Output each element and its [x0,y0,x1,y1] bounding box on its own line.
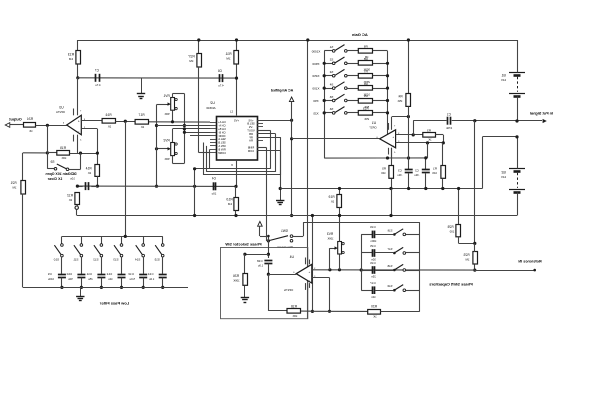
svg-text:C9: C9 [48,272,52,276]
wire U2 pin5 [190,135,210,137]
svg-text:COM: COM [247,149,254,153]
wire bank bus [419,222,421,311]
svg-text:C12: C12 [106,272,112,276]
potentiometer RV3 [327,232,345,270]
capacitor C6 [218,69,224,88]
svg-text:In Put Signal: In Put Signal [530,111,553,115]
capacitor C2 [414,156,430,190]
wire bias rail y78 [78,77,237,79]
node R15 right [96,152,99,155]
svg-text:B1: B1 [501,73,505,77]
svg-text:50K: 50K [164,112,169,116]
node R15 left [46,151,49,154]
terminal input signal [517,119,547,123]
resistor R24 [24,117,36,133]
resistor R23 gain row with switch S6 [313,107,389,122]
svg-text:25K: 25K [364,117,369,121]
node C4 left [193,185,196,188]
capacitor C18 [257,259,273,274]
wire LPF top bus [62,235,163,238]
svg-text:Output: Output [9,117,22,121]
svg-text:SW1: SW1 [281,229,288,233]
battery B2 [501,137,525,216]
svg-text:R27: R27 [188,55,194,59]
ground G1 [137,78,145,99]
svg-text:R23: R23 [463,253,469,257]
capacitor C9 with switch S10 [47,236,65,289]
capacitor C16 with switch S18 [361,261,420,279]
capacitor C14 with switch S15 [148,236,167,289]
svg-text:C11: C11 [86,272,92,276]
svg-text:U4: U4 [290,255,294,259]
svg-text:OP27: OP27 [369,126,377,130]
wire SW1 to bank top [293,222,420,236]
resistor R6 gain row with switch S4 [312,82,389,97]
svg-text:S15: S15 [154,258,160,262]
wire feedback y186 [77,185,236,187]
svg-text:COMP: COMP [218,151,226,155]
svg-text:10u: 10u [108,277,113,281]
svg-text:S9: S9 [50,160,54,164]
wire long rail y215 [77,215,517,217]
label Phase Shift Capacitors [428,281,472,286]
capacitor C1 [445,113,517,130]
capacitor C11 with switch S12 [86,236,105,289]
svg-text:AD630: AD630 [206,106,216,110]
svg-text:C10: C10 [66,272,72,276]
wire U3 -in down [81,129,97,165]
potentiometer RV2 [163,139,177,162]
op-amp U4 OP27 [284,255,312,292]
arrow phase input [258,221,268,236]
capacitor C12 with switch S13 [106,236,125,289]
wire top to SW1 [306,38,309,318]
resistor R19 [328,187,341,217]
svg-text:1M: 1M [12,186,17,190]
svg-text:C2: C2 [415,169,419,173]
svg-text:R5: R5 [382,167,386,171]
resistor R14 [85,165,99,188]
svg-text:R13: R13 [68,53,74,57]
svg-text:S5: S5 [329,95,333,99]
wire U3 +in to R16 [81,120,102,122]
wire bank left spine [361,234,363,290]
U2 pin stubs and pin names [210,118,263,155]
svg-text:100: 100 [449,229,454,233]
U4 pin numbers [292,268,315,278]
battery B1 [501,40,525,121]
wire -in riser [312,278,331,313]
resistor R5 gain row with switch S5 [313,94,389,109]
svg-text:C15: C15 [370,244,376,248]
connector J1 [75,206,78,216]
wire U4 +in [312,268,475,271]
svg-text:10n: 10n [371,295,376,299]
wire R24 to U3 [36,125,67,127]
label Phase Selector SW [225,242,261,247]
svg-text:RA: RA [249,139,253,143]
svg-text:X1000: X1000 [311,49,320,53]
op-amp U2 AD630 body [206,101,257,160]
svg-text:Low Pass Filter: Low Pass Filter [99,300,129,305]
wire rail to R18 [311,214,314,313]
svg-text:+: + [308,270,310,274]
svg-text:X100: X100 [312,87,319,91]
RV2 wiper loop [155,105,210,188]
svg-text:R19: R19 [328,195,334,199]
wire U2 SELB to SW1 [257,147,267,241]
svg-text:+VS: +VS [234,119,239,123]
svg-text:R26: R26 [233,274,239,278]
svg-text:1M: 1M [226,57,231,61]
capacitor C17 with switch S19 [361,281,420,299]
svg-text:CH B+: CH B+ [218,127,226,131]
svg-text:R25: R25 [447,225,453,229]
node R10 top [234,185,237,188]
node U3 output [46,124,49,127]
svg-text:10u: 10u [70,177,75,181]
svg-text:1K: 1K [108,125,112,129]
wire U2 to AC-amplified node [257,119,293,122]
svg-text:.33u: .33u [414,173,420,177]
svg-text:-VS: -VS [249,125,254,129]
svg-text:SEL A: SEL A [218,137,226,141]
wire R17 to U2 pin1 [148,121,210,123]
RV2 wiring box [173,127,211,163]
svg-text:R5: R5 [363,94,367,98]
resistor R13 [68,51,81,65]
ground G4 [241,286,249,303]
svg-text:R6: R6 [363,82,367,86]
svg-text:50u: 50u [68,277,73,281]
resistor R20 [368,305,420,319]
wire R21 to LPF rail [22,194,24,288]
svg-text:R17: R17 [138,113,144,117]
svg-text:AC Amplified: AC Amplified [271,89,293,93]
svg-text:1X Close: 1X Close [48,177,63,181]
capacitor C7 [95,69,101,88]
svg-text:1K: 1K [373,314,377,318]
svg-text:R15: R15 [60,146,66,150]
wire U4 out to C18 [268,274,296,276]
wire R5 to rail [389,189,392,218]
svg-text:RV3: RV3 [327,232,333,236]
svg-text:C14: C14 [148,272,154,276]
svg-text:10K: 10K [61,156,66,160]
resistor R17 [135,113,148,129]
resistor R26 [233,274,248,287]
svg-text:RIN B: RIN B [218,147,225,151]
wire R26 branch [243,253,268,274]
svg-text:R14: R14 [85,166,91,170]
potentiometer RV1 [163,94,177,116]
svg-text:R21: R21 [10,181,16,185]
svg-text:1M: 1M [465,257,470,261]
capacitor C10 with switch S11 [66,236,85,289]
wire U1 +in [396,134,423,136]
svg-text:SEL B: SEL B [218,141,226,145]
resistor R23b [463,243,477,271]
wire SW1 common down [267,241,270,258]
capacitor C15 with switch S17 [361,244,420,262]
wire feedback y158 [324,156,427,159]
svg-text:11: 11 [230,110,233,114]
svg-text:-: - [393,143,394,147]
wire LPF bottom rail [23,287,188,289]
svg-text:R16: R16 [105,113,111,117]
wire ref riser [474,121,476,244]
wire LPF feed [125,121,127,236]
resistor R4 [397,38,410,158]
svg-text:R3: R3 [427,128,431,132]
svg-text:C13: C13 [128,272,134,276]
wire U2 to ground rail [257,151,281,189]
label AC Gain [351,32,367,37]
svg-text:RINB: RINB [248,146,255,150]
svg-text:S3: S3 [329,70,333,74]
wire C1 branch up [413,121,446,135]
svg-text:R18: R18 [291,305,297,309]
RV1 wiring box [171,94,186,128]
svg-text:S4: S4 [329,82,333,86]
svg-text:Phase Selector SW: Phase Selector SW [225,242,261,247]
node C1 branch [412,133,415,136]
svg-text:VOUT: VOUT [247,129,255,133]
svg-text:1K: 1K [69,198,73,202]
wire AC node to U1 output [290,120,293,217]
svg-text:100u: 100u [47,277,53,281]
svg-text:+: + [392,135,394,139]
svg-text:B2: B2 [501,171,505,175]
resistor R27 [188,40,201,67]
svg-text:S2: S2 [329,58,333,62]
svg-text:1.0u: 1.0u [149,277,155,281]
label Reference IN [518,260,541,264]
resistor R21 [10,181,25,195]
svg-text:U3: U3 [59,105,63,109]
svg-text:OP27A: OP27A [56,110,65,114]
label In Put Signal [530,111,553,115]
svg-text:C4: C4 [212,177,216,181]
RV1 wiper stub [157,104,167,106]
svg-text:C3: C3 [398,169,402,173]
svg-text:1K: 1K [428,138,431,142]
node R27 top [197,38,200,41]
wire analog common rail y188 [280,188,482,190]
svg-text:S12: S12 [93,258,99,262]
ground G3 [76,287,84,300]
svg-text:50K: 50K [164,157,169,161]
svg-text:+VS: +VS [248,118,253,122]
node C6/R11 junction [235,77,238,80]
wire R11 to U2 pin11 [230,64,237,115]
wire U1 output [292,138,380,140]
wire output terminal [10,124,24,126]
svg-text:1.0u: 1.0u [257,264,263,268]
resistor R1 [432,143,446,190]
svg-text:DIOD: DIOD [219,134,226,138]
op-amp U1 OP27 [369,121,396,148]
svg-text:15K: 15K [397,99,402,103]
wire U4 feedback [268,274,287,311]
resistor R10 [226,186,238,217]
svg-text:R1: R1 [433,167,437,171]
box phase selector [221,248,308,319]
svg-text:R24: R24 [27,117,33,121]
resistor R18 [287,305,312,318]
svg-text:RIN A: RIN A [218,144,225,148]
U2 bottom pin 8 [231,160,237,186]
svg-text:S17: S17 [387,247,392,251]
wire R15 left loop [23,152,48,154]
terminal reference in [475,269,536,272]
switch SW1 [266,229,293,249]
svg-text:U2: U2 [210,101,215,105]
svg-text:CH B-: CH B- [218,130,225,134]
capacitor C4 [211,177,216,196]
svg-text:S19: S19 [387,284,392,288]
svg-text:.33u: .33u [397,173,403,177]
resistor R3 [423,128,444,143]
wire wrap3 [204,137,281,175]
svg-text:R23: R23 [363,107,369,111]
svg-text:SEL B: SEL B [247,122,255,126]
U3 pin numbers [62,111,85,142]
svg-text:25u: 25u [88,277,93,281]
U3 power stubs [74,78,78,153]
svg-text:100n: 100n [370,239,376,243]
wire bus V2 to pin10 [199,152,210,154]
svg-text:C19: C19 [370,225,376,229]
resistor R5b [381,148,394,190]
svg-text:1K: 1K [29,129,33,133]
capacitor C3 [397,158,413,190]
node U4 out [267,273,270,276]
svg-text:10K: 10K [432,171,437,175]
svg-text:C16: C16 [370,261,376,265]
svg-text:Reference IN: Reference IN [518,260,541,264]
svg-text:R12: R12 [67,194,73,198]
svg-text:R8: R8 [363,57,367,61]
resistor R9 gain row with switch S1 [311,45,387,60]
svg-text:RV2: RV2 [163,139,169,143]
svg-text:C1: C1 [447,113,451,117]
resistor R7 gain row with switch S3 [312,69,389,84]
wire output to R15 [47,125,49,169]
svg-text:S11: S11 [73,258,78,262]
svg-text:X50: X50 [313,99,319,103]
wire R16-R17 [115,121,135,123]
wire gain left bus [324,51,326,158]
svg-text:C6: C6 [218,69,222,73]
svg-text:1K: 1K [331,199,335,203]
U4 power stubs [306,258,310,290]
svg-text:R11: R11 [225,52,231,56]
resistor R12 [67,193,80,207]
node C5 left [76,185,79,188]
node input/C1 [473,119,476,122]
svg-text:CH A+: CH A+ [218,120,226,124]
wire RV3 top [338,214,341,242]
wire R13 bottom [77,65,79,78]
svg-text:1M: 1M [189,59,194,63]
svg-text:C18: C18 [257,259,263,263]
svg-text:U1: U1 [372,121,376,125]
svg-text:X25: X25 [313,111,319,115]
wire battery midpoint [482,135,518,188]
capacitor C5 [70,172,98,190]
svg-text:S14: S14 [135,258,141,262]
node R13/C7 junction [76,76,79,79]
svg-text:470n: 470n [445,126,452,130]
wire R18 to R20 [312,310,367,312]
svg-text:4.7u: 4.7u [218,83,224,87]
svg-text:RF: RF [249,135,253,139]
U1 pin numbers [376,126,400,155]
svg-text:AC Gain: AC Gain [351,32,367,37]
svg-text:C17: C17 [370,281,376,285]
svg-text:R7: R7 [363,69,367,73]
resistor R16 [102,113,115,129]
wire R21 branch [22,153,24,180]
svg-text:12V: 12V [501,78,506,82]
svg-text:R9: R9 [363,45,367,49]
resistor R25 [447,187,476,245]
svg-text:S1: S1 [329,45,333,49]
svg-text:1M: 1M [68,57,73,61]
wire bus V2 down from R27 [198,67,200,153]
svg-text:R20: R20 [371,305,377,309]
op-amp U3 OP27 [56,105,81,134]
svg-text:RV1: RV1 [163,94,169,98]
svg-text:10u: 10u [211,192,216,196]
svg-text:X500: X500 [312,62,319,66]
svg-text:RB: RB [249,132,253,136]
wire V1 down [193,167,196,217]
svg-text:R10: R10 [226,198,232,202]
U1 power wiring [389,115,411,158]
svg-text:1M: 1M [227,202,232,206]
node input/B1 [515,119,518,122]
capacitor C19 with switch S16 [361,225,420,243]
wire +12V top rail [77,40,517,42]
wire left rail drop to R13 [77,40,79,51]
resistor R8 gain row with switch S2 [312,57,389,72]
ground G2 [276,187,284,205]
resistor R11 [225,40,238,64]
node R11 top [235,38,238,41]
RV3 wiper wire [330,248,334,270]
svg-text:100K: 100K [233,279,239,283]
svg-text:5.0u: 5.0u [129,277,135,281]
capacitor C13 with switch S14 [128,236,147,289]
svg-text:100: 100 [381,171,386,175]
svg-text:X250: X250 [312,74,319,78]
svg-text:4.7u: 4.7u [95,83,101,87]
svg-text:S10: S10 [53,258,59,262]
svg-text:S16: S16 [387,228,392,232]
wire gain right bus [386,51,389,140]
svg-text:C5: C5 [70,172,74,176]
node SW1 pivot [267,239,270,242]
wire wrap1 [195,130,271,168]
svg-text:S18: S18 [387,264,392,268]
node R16/R17 [124,120,127,123]
terminal Output [5,117,22,127]
wire wrap2 [207,134,276,172]
wire U1 -in [396,141,445,144]
svg-text:Phase Shift Capacitors: Phase Shift Capacitors [428,281,472,286]
